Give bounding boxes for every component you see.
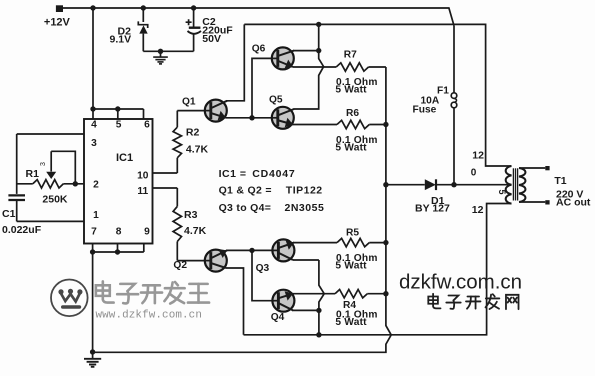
svg-text:Q3: Q3 — [256, 263, 270, 274]
svg-text:Q1: Q1 — [182, 97, 196, 108]
svg-text:8: 8 — [116, 226, 122, 237]
svg-text:5 Watt: 5 Watt — [335, 261, 367, 272]
resistor R7 0.1 Ohm 5 Watt — [336, 63, 368, 71]
wire collector drop with hop over Q6 emitter — [294, 24, 324, 109]
wire Q5 emitter to R6 — [292, 124, 337, 126]
node junction R4 bus — [383, 291, 388, 296]
op-amp U1 IC1 CD4047 body — [84, 119, 153, 244]
wire left +12V drop to IC bus — [92, 8, 94, 109]
svg-text:1: 1 — [93, 210, 99, 221]
svg-text:5: 5 — [116, 120, 122, 131]
wire transformer secondary bottom — [519, 201, 545, 203]
svg-text:9: 9 — [144, 226, 150, 237]
wire down to Q4 base — [252, 250, 272, 300]
transistor Q5 2N3055 — [272, 107, 294, 129]
node junction second rail — [316, 22, 321, 27]
wire Q1 collector up — [226, 24, 244, 100]
svg-text:4.7K: 4.7K — [184, 225, 207, 237]
svg-text:Q6: Q6 — [252, 43, 266, 54]
svg-text:Q4: Q4 — [271, 312, 285, 323]
svg-text:11: 11 — [137, 186, 148, 197]
watermark dian-zi-kai-fa-wang dark — [428, 296, 438, 303]
svg-text:www.dzkfw.com.cn: www.dzkfw.com.cn — [96, 309, 203, 321]
wire second rail (collectors top) — [244, 24, 511, 166]
zener diode D2 — [142, 8, 144, 22]
node junction Q2e/Q3b/Q4b — [249, 248, 254, 253]
svg-text:AC out: AC out — [556, 197, 591, 209]
svg-text:R1: R1 — [26, 168, 40, 180]
node junction R5 bus — [383, 240, 388, 245]
transistor Q6 2N3055 — [272, 47, 294, 69]
wire Q4 emitter to R4 — [292, 293, 335, 295]
wire collector drop with hop over Q4 emitter — [319, 260, 324, 335]
svg-text:CD4047: CD4047 — [252, 168, 295, 180]
fuse F1 10A — [453, 26, 455, 93]
svg-text:50V: 50V — [202, 33, 221, 45]
diode D1 BY127 — [386, 184, 425, 186]
svg-text:Q5: Q5 — [269, 95, 283, 106]
svg-text:3: 3 — [91, 138, 97, 149]
svg-text:IC1 =: IC1 = — [219, 168, 247, 180]
svg-text:5 Watt: 5 Watt — [335, 143, 367, 154]
svg-text:0.022uF: 0.022uF — [2, 224, 42, 236]
wire up to Q6 base — [252, 58, 272, 117]
svg-text:250K: 250K — [42, 193, 68, 205]
svg-text:T1: T1 — [554, 175, 566, 187]
node junction bus pin5 — [115, 106, 120, 111]
node junction top-rail / left rail — [90, 5, 95, 10]
svg-text:R2: R2 — [186, 127, 200, 139]
transistor Q1 TIP122 — [205, 100, 227, 122]
svg-text:TIP122: TIP122 — [286, 184, 323, 196]
resistor R1 250K potentiometer — [17, 183, 33, 185]
ground symbol (main) — [84, 352, 101, 367]
wire R2 to Q1 base — [177, 110, 205, 112]
wire +12V top rail — [63, 8, 454, 26]
ground symbol (D2/C2) — [153, 51, 168, 64]
node junction bus pin4 — [90, 106, 95, 111]
node junction bus pin7 — [90, 249, 95, 254]
node junction top-rail / C2 — [191, 5, 196, 10]
svg-text:5: 5 — [497, 190, 507, 195]
resistor R2 4.7K — [153, 172, 178, 174]
svg-text:C1: C1 — [2, 208, 16, 220]
node junction ground rail left — [90, 349, 95, 354]
wire bottom collector rail — [244, 204, 512, 335]
node junction top-rail / D2 — [141, 5, 146, 10]
resistor R6 0.1 Ohm 5 Watt — [337, 120, 369, 128]
svg-text:R3: R3 — [184, 209, 198, 221]
svg-text:10: 10 — [137, 171, 149, 182]
watermark logo circle W — [51, 280, 88, 317]
node +12V battery terminal — [56, 5, 63, 12]
svg-text:Fuse: Fuse — [413, 105, 437, 116]
wire R3 to Q2 base — [177, 260, 205, 262]
wire Q2 emitter to Q3 base — [226, 249, 272, 251]
node secondary terminal top — [545, 166, 549, 170]
node secondary terminal bottom — [545, 200, 549, 204]
watermark text dian-zi-kai-fa-wang gray — [96, 281, 209, 303]
wire emitter bus — [93, 67, 392, 352]
node junction D1 bus — [383, 182, 388, 187]
svg-text:9.1V: 9.1V — [110, 34, 132, 46]
svg-text:+12V: +12V — [44, 16, 71, 28]
svg-text:7: 7 — [91, 226, 97, 237]
node junction R1 wiper — [73, 181, 78, 186]
svg-text:2N3055: 2N3055 — [285, 202, 325, 214]
svg-text:4: 4 — [91, 120, 97, 131]
wire Q1 emitter to Q5 base — [226, 117, 272, 119]
node junction ground D2/C2 — [158, 49, 163, 54]
transistor Q2 TIP122 — [205, 249, 227, 272]
svg-text:IC1: IC1 — [116, 152, 133, 164]
wire Q2 collector down — [226, 268, 244, 335]
wire IC bottom bus pins 7-8-9 — [93, 251, 144, 253]
svg-text:R7: R7 — [344, 50, 357, 61]
node junction Q1e/Q5b/Q6b — [249, 115, 254, 120]
svg-text:dzkfw.com.cn: dzkfw.com.cn — [399, 271, 522, 294]
capacitor C1 0.022uF — [8, 194, 25, 196]
resistor R5 0.1 Ohm 5 Watt — [337, 238, 369, 246]
capacitor C2 220uF 50V electrolytic — [193, 8, 195, 27]
svg-text:Q3 to Q4=: Q3 to Q4= — [219, 202, 272, 214]
node junction rail — [316, 332, 321, 337]
svg-text:5 Watt: 5 Watt — [335, 317, 367, 328]
svg-text:0: 0 — [471, 168, 477, 179]
node junction bus pin8 — [115, 249, 120, 254]
svg-text:6: 6 — [144, 120, 150, 131]
svg-text:R5: R5 — [346, 228, 359, 239]
resistor R3 4.7K — [153, 187, 178, 189]
wire Q6 emitter to R7 — [293, 66, 336, 68]
svg-text:3: 3 — [40, 162, 47, 166]
svg-text:5 Watt: 5 Watt — [335, 85, 367, 96]
wire pin3 to left — [17, 133, 84, 135]
transistor Q3 2N3055 — [272, 239, 294, 261]
transistor Q4 2N3055 — [272, 290, 294, 312]
svg-text:12: 12 — [472, 150, 484, 162]
wire Q3 collector — [293, 259, 319, 261]
transformer T1 windings — [506, 166, 512, 204]
wire Q6 collector — [293, 50, 319, 52]
node junction R6 bus — [383, 122, 388, 127]
node junction Q4 collector — [316, 308, 321, 313]
svg-text:BY 127: BY 127 — [415, 203, 450, 215]
wire Q4 collector — [292, 309, 319, 311]
wire Q3 emitter to R5 — [293, 242, 337, 244]
resistor R4 0.1 Ohm 5 Watt — [335, 290, 367, 298]
svg-text:2: 2 — [93, 179, 99, 190]
svg-text:Q1 & Q2 =: Q1 & Q2 = — [219, 184, 272, 196]
node junction fuse/D1/center-tap — [451, 182, 456, 187]
node junction Q6 collector — [316, 48, 321, 53]
wire IC top bus pins 4-5-6 — [93, 108, 144, 110]
svg-text:Q2: Q2 — [173, 260, 187, 271]
svg-text:4.7K: 4.7K — [186, 144, 209, 156]
wire IC ground drop — [92, 252, 94, 352]
svg-text:R6: R6 — [346, 108, 359, 119]
wire D2-C2 bottom link — [143, 50, 193, 52]
svg-text:12: 12 — [472, 204, 484, 216]
wire transformer secondary top — [519, 167, 545, 169]
